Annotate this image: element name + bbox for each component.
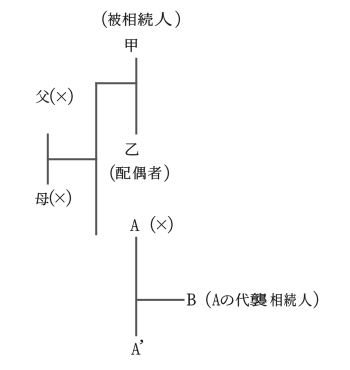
text （配偶者） xyxy=(111,165,169,182)
wire: horizontal branch to B (H3) xyxy=(136,299,184,301)
wire: vertical line at 父母 (V3) xyxy=(47,134,49,185)
wire: vertical line parents join (V2) xyxy=(95,82,97,235)
text 父（×） xyxy=(36,88,73,105)
text A’ xyxy=(131,340,143,355)
wire: horizontal line 母 join (H2) xyxy=(47,158,97,160)
text （被相続人） xyxy=(102,11,179,28)
wire: vertical line 甲 to 乙 (V1) xyxy=(135,58,137,135)
text B（Aの代襲相続人） xyxy=(187,291,318,308)
text 甲 xyxy=(126,39,138,52)
text 乙 xyxy=(126,143,139,155)
wire: vertical line A to A' (V4) xyxy=(135,237,137,336)
wire: horizontal line parents to V1 (H1) xyxy=(95,82,137,84)
text A（×） xyxy=(130,216,172,233)
text 母（×） xyxy=(35,189,71,206)
